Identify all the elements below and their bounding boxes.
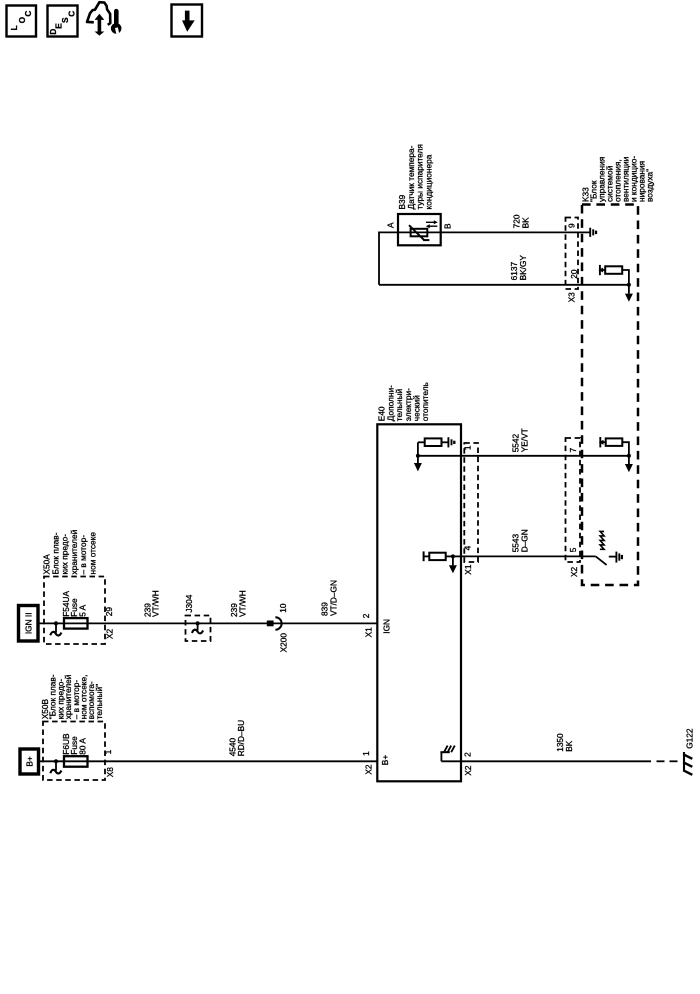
svg-text:X200: X200 — [279, 633, 289, 653]
svg-text:G122: G122 — [684, 728, 694, 749]
E40 box — [377, 424, 461, 781]
K33 internal ground at pin 9 — [590, 228, 596, 237]
splice J304 — [184, 594, 211, 641]
svg-text:5: 5 — [568, 547, 578, 552]
wire 5542 YE/VT — [461, 455, 629, 457]
svg-text:X8: X8 — [105, 767, 115, 778]
svg-text:C: C — [66, 11, 76, 17]
K33 connector X3 dashed box — [566, 218, 579, 290]
svg-text:VT/WH: VT/WH — [237, 590, 247, 617]
fuse block X50A dashed outline — [44, 577, 105, 645]
E40 label — [377, 382, 431, 421]
fuse block X50A label — [41, 529, 97, 574]
icon vehicle-adjust with wrench — [87, 2, 121, 35]
thermistor symbol — [398, 220, 441, 240]
svg-text:BK/GY: BK/GY — [518, 255, 528, 281]
svg-text:7: 7 — [568, 448, 578, 453]
svg-text:B+: B+ — [24, 756, 34, 767]
fuse block X50B label — [40, 674, 104, 719]
K33 label — [580, 156, 654, 202]
K33 internal relay switch to ground at pin 5 — [596, 531, 622, 565]
wire 720 BK — [441, 231, 590, 233]
E40 connector X1 dashed box — [464, 443, 478, 562]
svg-text:ном отсеке: ном отсеке — [87, 532, 97, 575]
svg-text:D–GN: D–GN — [520, 529, 530, 552]
svg-text:VT/D–GN: VT/D–GN — [329, 580, 339, 616]
label IGN II (power feed) — [19, 606, 39, 642]
B39 box — [398, 214, 441, 245]
svg-text:X2: X2 — [569, 566, 579, 577]
label B+ (power feed) — [20, 749, 39, 774]
svg-text:J304: J304 — [184, 594, 194, 612]
K33 internal driver at pin 7: pull-up resistor and signal arrow — [599, 437, 633, 472]
svg-text:2: 2 — [463, 752, 473, 757]
svg-text:S: S — [60, 17, 70, 23]
icon down-arrow button — [172, 5, 203, 37]
svg-text:A: A — [386, 222, 396, 228]
wire 4540 row — [39, 760, 378, 762]
svg-text:X3: X3 — [567, 292, 577, 303]
svg-text:B+: B+ — [380, 755, 390, 766]
wire 6137 BK/GY — [379, 284, 629, 286]
wire 5543 D-GN — [461, 555, 596, 557]
svg-text:C: C — [23, 11, 33, 17]
svg-text:YE/VT: YE/VT — [520, 428, 530, 452]
svg-text:воздуха": воздуха" — [644, 169, 654, 202]
wire 1350 BK — [461, 760, 651, 762]
svg-text:10: 10 — [278, 603, 288, 613]
svg-text:X2: X2 — [463, 765, 473, 776]
wire from pin A down — [379, 232, 398, 284]
K33 module dashed box — [582, 205, 638, 586]
svg-text:1: 1 — [361, 751, 371, 756]
svg-text:9: 9 — [567, 223, 577, 228]
icon LOC button — [7, 6, 37, 37]
svg-text:BK: BK — [520, 217, 530, 229]
icon DESC button — [48, 6, 78, 37]
inline connector X200 pin 10 — [267, 603, 289, 652]
svg-text:29: 29 — [104, 607, 114, 617]
svg-text:20: 20 — [569, 269, 579, 279]
svg-text:X1: X1 — [363, 627, 373, 638]
svg-text:кондиционера: кондиционера — [423, 154, 433, 209]
wire 239/IGN row — [39, 622, 378, 624]
svg-text:X1: X1 — [463, 564, 473, 575]
svg-text:VT/WH: VT/WH — [151, 590, 161, 617]
E40 internal circuit at pin X1-4: sensor resistor, signal arrow — [424, 551, 461, 573]
svg-text:80 A: 80 A — [77, 738, 87, 755]
E40 internal circuit at pin X1-1: resistor to ground, signal arrow — [414, 437, 461, 471]
fuse block X50B dashed outline — [43, 722, 105, 781]
svg-text:IGN: IGN — [381, 619, 391, 634]
K33 connector X2 dashed box — [566, 438, 581, 562]
E40 internal chassis ground at pin X2-2 — [440, 746, 461, 762]
svg-text:IGN II: IGN II — [24, 612, 34, 634]
K33 internal driver at pin 20: pull-up resistor and signal arrow — [599, 265, 633, 302]
svg-text:тельный": тельный" — [94, 684, 104, 719]
svg-text:отопитель: отопитель — [420, 382, 430, 421]
ground G122 — [683, 728, 694, 775]
fuse F54UA 5A — [50, 591, 87, 636]
B39 label — [397, 144, 433, 209]
svg-text:2: 2 — [361, 613, 371, 618]
svg-text:RD/D–BU: RD/D–BU — [236, 720, 246, 756]
svg-text:1: 1 — [103, 749, 113, 754]
svg-text:L: L — [9, 25, 19, 30]
relay coil — [600, 531, 604, 549]
svg-text:X2: X2 — [104, 628, 114, 639]
svg-text:X2: X2 — [363, 764, 373, 775]
svg-text:B: B — [442, 223, 452, 229]
svg-text:BK: BK — [564, 740, 574, 752]
svg-text:5 A: 5 A — [77, 604, 87, 616]
fuse F6UB 80A — [50, 733, 87, 773]
